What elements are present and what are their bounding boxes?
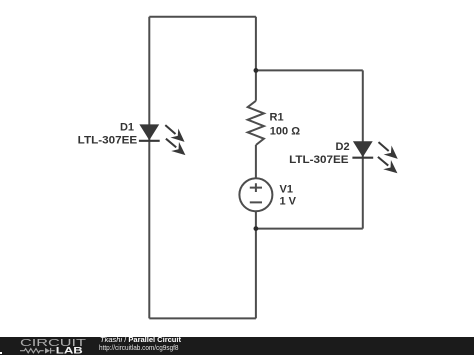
wire: V1 to bottom xyxy=(255,211,257,318)
LED D1 arrows xyxy=(161,121,189,160)
wire: middle branch above node A xyxy=(255,17,257,101)
wire: R1 to V1 xyxy=(255,145,257,179)
svg-text:R1: R1 xyxy=(270,112,284,124)
node B: bottom junction xyxy=(254,226,259,231)
footer corner mark xyxy=(0,352,2,354)
svg-text:100 Ω: 100 Ω xyxy=(270,126,300,138)
svg-text:1 V: 1 V xyxy=(280,196,297,208)
wire: right rail through D2 xyxy=(362,70,364,228)
CircuitLab logo: diode glyph xyxy=(45,348,55,354)
svg-text:LTL-307EE: LTL-307EE xyxy=(78,135,138,147)
svg-text:D2: D2 xyxy=(336,141,350,153)
LED D2 xyxy=(352,141,373,157)
svg-text:D1: D1 xyxy=(120,121,134,133)
wire: left rail through D1 xyxy=(148,17,150,319)
LED D2 arrows xyxy=(374,138,402,178)
wire: D2 branch bottom to node B xyxy=(256,228,363,230)
wire: bottom horizontal xyxy=(149,317,256,319)
resistor R1 xyxy=(248,101,264,145)
node A: top junction xyxy=(254,68,259,73)
svg-text:LAB: LAB xyxy=(56,346,84,355)
svg-text:LTL-307EE: LTL-307EE xyxy=(289,154,349,166)
footer bar xyxy=(0,337,474,355)
LED D1 xyxy=(139,124,160,140)
wire: node A to D2 branch top xyxy=(256,69,363,71)
CircuitLab logo: resistor glyph xyxy=(20,349,44,353)
svg-text:http://circuitlab.com/cg9sgf8: http://circuitlab.com/cg9sgf8 xyxy=(99,343,179,352)
voltage source V1 xyxy=(239,178,272,211)
svg-text:V1: V1 xyxy=(280,184,293,196)
wire: top horizontal xyxy=(149,16,256,18)
